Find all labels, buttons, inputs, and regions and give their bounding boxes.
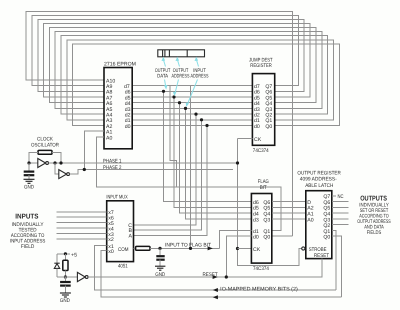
svg-text:OUTPUTS: OUTPUTS [360,196,387,203]
svg-text:x0: x0 [108,249,114,255]
flag bit register U4 74C374 [251,194,271,264]
wire d1 tap to mux B [134,120,202,230]
svg-text:x2: x2 [108,237,114,243]
wire A8 loop (from jump Q6) [38,20,304,92]
svg-text:NC: NC [338,194,344,200]
node cap tap [27,161,30,164]
wire A4 loop (from jump Q2) [61,36,328,114]
capacitor C1 [28,163,30,171]
wire d2 [132,113,252,115]
wire d3 [132,107,252,109]
svg-text:+5: +5 [71,252,77,258]
svg-text:74C374: 74C374 [253,148,269,154]
wire reset line [88,259,322,277]
wire A7 loop (from jump Q5) [44,24,310,98]
svg-text:REGISTER: REGISTER [250,63,272,69]
wire R left to inverter input [29,152,38,163]
wire node to inverter [57,276,77,278]
input lines x7..x2 [57,212,107,239]
svg-text:IO-MAPPED MEMORY BITS (2): IO-MAPPED MEMORY BITS (2) [220,286,298,292]
ground (flag input) [155,266,165,270]
node reset / flag d0 [225,275,228,278]
svg-text:d0: d0 [253,235,259,241]
cyan arrows down to bus [165,80,198,105]
capacitor C3 (flag input filter) [156,256,164,260]
wire A9 loop (from jump Q7) [32,15,298,85]
wire d5 [132,96,252,98]
svg-text:Q0: Q0 [263,235,270,241]
wire d7 tap to output data (to output register D) [170,86,177,188]
svg-text:PHASE 2: PHASE 2 [103,165,122,171]
wire EPROM A0 from flag net [97,137,281,231]
wire d1 [132,119,252,121]
svg-text:2716 EPROM: 2716 EPROM [104,62,136,68]
wire jump CK stub [238,138,253,140]
capacitor C2 [64,277,66,281]
wire d0 [132,125,252,127]
node phase2 / A1 [83,168,86,171]
cyan arrows up to word box [163,59,198,66]
wire flag Q6 to output D [272,201,306,203]
wire d4 tap to flag d4 [180,103,252,213]
wire A6 loop (from jump Q4) [49,28,316,103]
wire io1: output Q1 to mux x1 [95,246,336,291]
wire innermost loop (flag input net) [190,86,192,249]
node phase1/ck [236,161,239,164]
svg-text:Q0: Q0 [323,235,330,241]
inverter U3c [77,272,88,281]
input mux U6 4051 [107,201,134,262]
svg-text:INPUT MUX: INPUT MUX [106,195,128,201]
node com [158,247,161,250]
wire A5 loop (from jump Q3) [55,32,322,109]
svg-text:ADDRESS: ADDRESS [172,74,190,80]
svg-text:COM: COM [118,247,129,253]
wire EPROM A1 from phase 2 [84,131,104,169]
resistor R1 [38,150,52,154]
svg-text:Q0: Q0 [265,124,272,130]
svg-text:FIELDS: FIELDS [367,230,382,236]
svg-text:INPUTS: INPUTS [15,214,38,221]
node flag input / loop [189,247,192,250]
svg-text:4051: 4051 [118,264,128,270]
svg-text:CLOCK: CLOCK [37,137,53,143]
resistor R3 [64,254,66,260]
wire flag Q0 stub to A10 riser [272,235,293,237]
wire output Q1 to io-mapped line 1 [332,230,336,290]
svg-text:A: A [129,234,133,240]
resistor R2 (flag input) [134,247,136,249]
wire phase1 down to clocks [238,139,302,266]
svg-text:RESET: RESET [203,272,219,278]
svg-text:INPUT TO FLAG BIT: INPUT TO FLAG BIT [165,242,212,248]
strobe bubble and label [302,247,305,250]
wire flag d0 from reset [226,236,251,277]
junction dots on bus [162,90,209,127]
wire phase 2 [70,170,234,175]
svg-text:ADDRESS: ADDRESS [191,74,209,80]
node flag ck [236,247,239,250]
ground (clock) [28,175,30,179]
output register U5 4099 addressable latch [306,191,332,259]
svg-text:A0: A0 [307,217,313,223]
wire io2: output Q0 to mux x0 [101,250,342,297]
wire d0 tap to mux A [134,126,208,236]
svg-text:OUTPUT REGISTER: OUTPUT REGISTER [297,171,341,177]
wire d5 tap to flag d5 [174,97,251,207]
ground (reset) [60,293,71,297]
wire flag Q5 to output A2 [272,206,306,208]
wire d6 [132,90,252,92]
svg-text:74C374: 74C374 [253,266,269,272]
svg-text:OSCILLATOR: OSCILLATOR [31,143,59,149]
wire com branch to mux inh [159,248,161,255]
wire Q7 NC stub [332,195,336,197]
+5 stub [57,253,70,255]
svg-text:4099 ADDRESS-: 4099 ADDRESS- [300,177,337,183]
svg-text:Q3: Q3 [263,217,270,223]
wire A2 loop (from jump Q0) [73,44,340,126]
svg-text:PHASE 1: PHASE 1 [103,158,122,164]
svg-text:d0: d0 [125,124,131,130]
diode D1 [56,254,58,263]
arrowheads io [213,288,218,292]
wire d2 tap to mux C [134,114,197,225]
svg-text:BIT: BIT [260,185,268,191]
wire d6 tap to flag d6 [164,91,252,201]
svg-text:ABLE LATCH: ABLE LATCH [305,183,333,189]
node reset rc [64,275,67,278]
wire d4 [132,102,252,104]
wire output Q6..Q2 stubs [332,202,349,225]
svg-text:FIELD: FIELD [21,244,35,250]
jump dest register U2 74C374 [252,74,274,146]
arrowhead reset [213,275,218,279]
wire d7 [132,85,252,87]
svg-text:d3: d3 [253,217,259,223]
wire flag CK stub [238,248,252,250]
svg-text:DATA: DATA [157,74,168,80]
node osc2 [59,161,62,164]
svg-text:CK: CK [254,137,262,143]
wire A10 loop [26,11,292,236]
word format box [158,50,205,57]
field labels [155,68,209,80]
node osc1 [53,161,56,164]
svg-text:CK: CK [253,247,261,253]
wire phase 1 [49,162,238,164]
wire flag d1 from input-to-flag [220,230,252,248]
arrowhead input to flag [208,246,213,250]
svg-text:STROBE: STROBE [309,247,327,253]
inverter U3a [38,159,49,168]
wire d3 tap to flag d3 [186,108,252,218]
svg-text:GND: GND [24,185,34,191]
svg-text:A0: A0 [106,135,112,141]
2716 EPROM box U1 [104,68,132,149]
wire flag Q4 to output A1 [272,212,306,214]
inverter U3b [55,163,59,174]
wire output Q0 to io-mapped line 2 [332,236,342,297]
svg-text:d0: d0 [254,124,260,130]
wire flag Q3 to output A0 [272,218,306,220]
svg-text:GND: GND [60,298,70,304]
wire R right to inverter output [52,152,61,163]
svg-text:RESET: RESET [314,253,330,259]
wire A3 loop (from jump Q1) [67,40,334,120]
node +5 [64,252,67,255]
